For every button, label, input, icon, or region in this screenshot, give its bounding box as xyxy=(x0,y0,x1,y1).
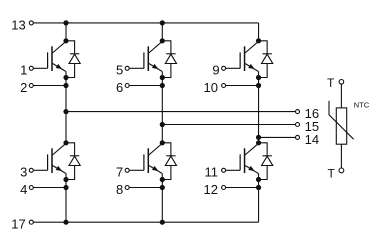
wire: emitter node down to aux emitter junction xyxy=(258,78,260,86)
transistor Q3 emitter slant xyxy=(149,64,162,72)
wire: col 3 low-side emitter to bottom rail xyxy=(258,188,260,223)
transistor Q1 emitter arrow xyxy=(56,64,62,69)
wire: emitter node down to aux emitter junction xyxy=(258,180,260,188)
svg-text:13: 13 xyxy=(11,17,25,32)
wire: diode D4 branch bottom jog xyxy=(162,166,171,180)
wire: emitter of Q5 down to emitter node xyxy=(258,71,260,77)
svg-text:10: 10 xyxy=(204,80,218,95)
svg-text:11: 11 xyxy=(205,165,219,180)
terminal circle pin 2 xyxy=(29,84,33,88)
node: collector junction of Q6 xyxy=(256,140,261,145)
wire: col 1 low-side emitter to bottom rail xyxy=(65,188,67,223)
terminal circle pin 11 xyxy=(222,168,226,172)
wire: phase output line to pin 15 xyxy=(162,124,295,126)
svg-text:9: 9 xyxy=(212,63,219,78)
wire: diode D1 branch bottom jog xyxy=(66,64,75,78)
svg-text:2: 2 xyxy=(20,80,27,95)
node: collector junction of Q1 xyxy=(63,38,68,43)
transistor Q4 emitter arrow xyxy=(152,166,158,171)
wire: emitter node down to aux emitter junction xyxy=(65,180,67,188)
transistor Q2 body bar xyxy=(51,148,53,173)
diode D3 triangle (anode, pointing up) xyxy=(165,54,176,63)
node: emitter junction of Q5 xyxy=(256,75,261,80)
node: collector junction of Q4 xyxy=(160,140,165,145)
transistor Q6 emitter arrow xyxy=(248,166,254,171)
svg-text:T: T xyxy=(327,166,335,180)
wire: diode D1 branch top jog xyxy=(66,41,75,54)
wire: col 2 low-side emitter to bottom rail xyxy=(161,188,163,223)
node: emitter junction of Q4 xyxy=(160,177,165,182)
wire: gate lead pin 9 to Q5 xyxy=(226,67,241,69)
svg-text:NTC: NTC xyxy=(354,100,370,109)
transistor Q6 gate bar xyxy=(239,154,241,170)
wire: diode D6 branch top jog xyxy=(259,143,268,156)
wire: emitter of Q4 down to emitter node xyxy=(161,173,163,179)
svg-text:14: 14 xyxy=(305,132,319,147)
node: aux emitter junction pin 12 xyxy=(256,185,261,190)
wire: aux emitter lead pin 8 xyxy=(129,187,162,189)
node: collector junction of Q3 xyxy=(160,38,165,43)
wire: gate lead pin 1 to Q1 xyxy=(33,67,47,69)
transistor Q6 emitter slant xyxy=(245,166,258,174)
terminal circle pin 6 xyxy=(125,84,129,88)
transistor Q5 gate bar xyxy=(239,52,241,68)
wire: emitter of Q6 down to emitter node xyxy=(258,173,260,179)
terminal circle pin 9 xyxy=(222,66,226,70)
transistor Q5 emitter arrow xyxy=(248,64,254,69)
transistor Q1 gate bar xyxy=(47,52,49,68)
wire: diode D5 branch top jog xyxy=(259,41,268,54)
transistor Q2 gate bar xyxy=(47,154,49,170)
terminal circle pin 15 xyxy=(296,123,300,127)
node: aux emitter junction pin 10 xyxy=(256,83,261,88)
wire: emitter of Q1 down to emitter node xyxy=(65,71,67,77)
diode D4 triangle (anode, pointing up) xyxy=(165,156,176,165)
transistor Q4 gate bar xyxy=(143,154,145,170)
wire: top rail drop col 2 xyxy=(161,23,163,41)
wire: phase output line to pin 16 xyxy=(66,111,296,113)
transistor Q2 emitter slant xyxy=(53,166,66,174)
terminal circle pin 17 xyxy=(29,220,33,224)
wire: phase column 2 from aux junction to phase junction xyxy=(161,86,163,125)
wire: emitter node down to aux emitter junction xyxy=(161,78,163,86)
wire: phase column 2 down to low-side collector xyxy=(161,125,163,143)
wire: emitter node down to aux emitter junction xyxy=(65,78,67,86)
wire: diode D4 branch top jog xyxy=(162,143,171,156)
wire: gate lead pin 5 to Q3 xyxy=(129,67,144,69)
node: phase junction col 2 xyxy=(160,122,165,127)
transistor Q5 (IGBT) collector slant xyxy=(245,41,259,53)
terminal circle pin 14 xyxy=(296,135,300,139)
svg-text:3: 3 xyxy=(20,165,27,180)
svg-text:8: 8 xyxy=(116,182,123,197)
transistor Q3 emitter arrow xyxy=(152,64,158,69)
node: collector junction of Q2 xyxy=(63,140,68,145)
transistor Q4 (IGBT) collector slant xyxy=(149,143,163,155)
terminal circle T (bottom) xyxy=(339,168,344,173)
diode D1 triangle (anode, pointing up) xyxy=(69,54,80,63)
wire: NTC body to T bottom xyxy=(340,144,342,168)
wire: top rail drop col 3 xyxy=(258,23,260,41)
diode D6 triangle (anode, pointing up) xyxy=(262,156,273,165)
wire: emitter of Q2 down to emitter node xyxy=(65,173,67,179)
node: aux emitter junction pin 8 xyxy=(160,185,165,190)
terminal circle pin 10 xyxy=(222,84,226,88)
terminal circle pin 5 xyxy=(125,66,129,70)
transistor Q5 emitter slant xyxy=(245,64,258,72)
wire: diode D2 branch top jog xyxy=(66,143,75,156)
transistor Q3 (IGBT) collector slant xyxy=(149,41,163,53)
node: phase junction col 3 xyxy=(256,135,261,140)
transistor Q1 (IGBT) collector slant xyxy=(52,41,66,53)
wire: phase column 1 down to low-side collector xyxy=(65,112,67,143)
terminal circle pin 3 xyxy=(29,168,33,172)
wire: aux emitter lead pin 6 xyxy=(129,85,162,87)
wire: emitter of Q3 down to emitter node xyxy=(161,71,163,77)
wire: DC+ top rail (pin 13) xyxy=(33,22,258,24)
terminal circle T (top) xyxy=(339,80,344,85)
transistor Q4 emitter slant xyxy=(149,166,162,174)
svg-text:T: T xyxy=(327,76,335,90)
thermistor NTC body xyxy=(336,108,346,144)
wire: phase column 1 from aux junction to phase junction xyxy=(65,86,67,112)
svg-text:5: 5 xyxy=(116,63,123,78)
wire: aux emitter lead pin 10 xyxy=(226,85,259,87)
transistor Q6 (IGBT) collector slant xyxy=(245,143,259,155)
node: bottom rail junction col 1 xyxy=(63,220,68,225)
diode D6 cathode bar xyxy=(262,155,271,157)
svg-text:17: 17 xyxy=(11,217,25,232)
node: emitter junction of Q2 xyxy=(63,177,68,182)
wire: DC- bottom rail (pin 17) xyxy=(33,221,258,223)
wire: diode D6 branch bottom jog xyxy=(259,166,268,180)
terminal circle pin 8 xyxy=(125,186,129,190)
diode D5 triangle (anode, pointing up) xyxy=(262,54,273,63)
diode D3 cathode bar xyxy=(166,53,175,55)
wire: top rail drop col 1 xyxy=(65,23,67,41)
wire: aux emitter lead pin 4 xyxy=(33,187,66,189)
wire: diode D2 branch bottom jog xyxy=(66,166,75,180)
node: aux emitter junction pin 2 xyxy=(63,83,68,88)
terminal circle pin 13 xyxy=(29,21,33,25)
transistor Q2 emitter arrow xyxy=(56,166,62,171)
wire: phase column 3 from aux junction to phase junction xyxy=(258,86,260,138)
node: bottom rail junction col 2 xyxy=(160,220,165,225)
transistor Q1 body bar xyxy=(51,46,53,71)
diode D4 cathode bar xyxy=(166,155,175,157)
node: top rail junction col 1 xyxy=(63,20,68,25)
wire: gate lead pin 7 to Q4 xyxy=(129,169,144,171)
transistor Q3 body bar xyxy=(147,46,149,71)
wire: phase column 3 down to low-side collector xyxy=(258,137,260,142)
transistor Q3 gate bar xyxy=(143,52,145,68)
terminal circle pin 7 xyxy=(125,168,129,172)
wire: diode D3 branch top jog xyxy=(162,41,171,54)
node: top rail junction col 2 xyxy=(160,20,165,25)
wire: aux emitter lead pin 12 xyxy=(226,187,259,189)
terminal circle pin 4 xyxy=(29,186,33,190)
node: phase junction col 1 xyxy=(63,109,68,114)
wire: diode D5 branch bottom jog xyxy=(259,64,268,78)
node: aux emitter junction pin 6 xyxy=(160,83,165,88)
svg-text:6: 6 xyxy=(116,80,123,95)
wire: emitter node down to aux emitter junction xyxy=(161,180,163,188)
wire: gate lead pin 11 to Q6 xyxy=(226,169,241,171)
diode D5 cathode bar xyxy=(262,53,271,55)
node: collector junction of Q5 xyxy=(256,38,261,43)
transistor Q1 emitter slant xyxy=(53,64,66,72)
thermistor NTC diagonal with foot xyxy=(329,101,354,139)
wire: T top to NTC body xyxy=(340,84,342,108)
terminal circle pin 12 xyxy=(222,186,226,190)
svg-text:4: 4 xyxy=(20,182,27,197)
svg-text:7: 7 xyxy=(116,165,123,180)
diode D2 triangle (anode, pointing up) xyxy=(69,156,80,165)
transistor Q4 body bar xyxy=(147,148,149,173)
node: emitter junction of Q6 xyxy=(256,177,261,182)
diode D2 cathode bar xyxy=(70,155,79,157)
svg-text:12: 12 xyxy=(204,182,218,197)
transistor Q5 body bar xyxy=(244,46,246,71)
transistor Q6 body bar xyxy=(244,148,246,173)
wire: gate lead pin 3 to Q2 xyxy=(33,169,47,171)
transistor Q2 (IGBT) collector slant xyxy=(52,143,66,155)
wire: phase output line to pin 14 xyxy=(259,136,296,138)
terminal circle pin 1 xyxy=(29,66,33,70)
diode D1 cathode bar xyxy=(70,53,79,55)
wire: diode D3 branch bottom jog xyxy=(162,64,171,78)
node: emitter junction of Q1 xyxy=(63,75,68,80)
node: aux emitter junction pin 4 xyxy=(63,185,68,190)
terminal circle pin 16 xyxy=(296,110,300,114)
wire: aux emitter lead pin 2 xyxy=(33,85,66,87)
node: emitter junction of Q3 xyxy=(160,75,165,80)
svg-text:1: 1 xyxy=(20,63,27,78)
